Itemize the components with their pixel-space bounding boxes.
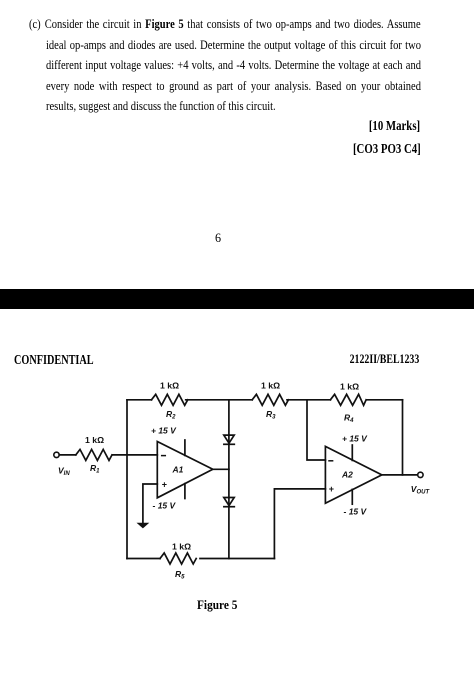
svg-text:- 15 V: - 15 V xyxy=(344,507,368,517)
svg-text:R1: R1 xyxy=(90,463,100,475)
svg-text:+ 15 V: + 15 V xyxy=(342,434,368,444)
svg-text:- 15 V: - 15 V xyxy=(153,501,177,511)
svg-text:VIN: VIN xyxy=(58,466,70,478)
svg-text:R3: R3 xyxy=(266,409,276,421)
svg-text:1 kΩ: 1 kΩ xyxy=(85,435,104,445)
svg-text:R5: R5 xyxy=(175,569,185,581)
svg-text:1 kΩ: 1 kΩ xyxy=(340,381,359,391)
svg-text:VOUT: VOUT xyxy=(411,484,431,496)
svg-text:R4: R4 xyxy=(344,413,354,425)
svg-text:1 kΩ: 1 kΩ xyxy=(261,381,280,391)
svg-text:+: + xyxy=(162,480,167,490)
svg-text:R2: R2 xyxy=(166,409,176,421)
svg-text:+: + xyxy=(329,484,334,494)
svg-text:+ 15 V: + 15 V xyxy=(151,425,177,435)
svg-text:A1: A1 xyxy=(172,465,184,475)
svg-text:1 kΩ: 1 kΩ xyxy=(172,542,191,552)
svg-text:A2: A2 xyxy=(341,470,353,480)
svg-text:1 kΩ: 1 kΩ xyxy=(160,381,179,391)
